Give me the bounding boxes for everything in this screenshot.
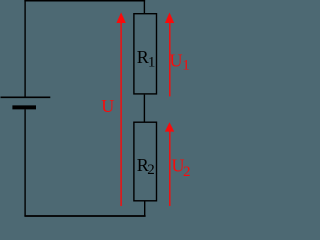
svg-text:2: 2 bbox=[183, 164, 191, 180]
voltage arrow U1 bbox=[165, 13, 174, 97]
wire mid stub R1 to R2 bbox=[143, 95, 145, 123]
svg-text:1: 1 bbox=[148, 54, 156, 70]
svg-text:1: 1 bbox=[182, 58, 190, 74]
wire top stub to R1 bbox=[143, 0, 145, 14]
voltage arrow U bbox=[116, 12, 125, 206]
wire top bbox=[24, 0, 145, 2]
wire bottom bbox=[24, 215, 145, 217]
svg-text:2: 2 bbox=[147, 162, 155, 178]
battery B1 negative plate bbox=[12, 105, 36, 109]
svg-text:U: U bbox=[101, 96, 114, 116]
wire left upper bbox=[24, 0, 26, 97]
wire bottom stub from R2 bbox=[144, 202, 146, 217]
wire left lower bbox=[24, 109, 26, 216]
resistor R2 bbox=[134, 122, 157, 201]
resistor R1 bbox=[134, 14, 157, 94]
voltage arrow U2 bbox=[165, 122, 174, 206]
battery B1 positive plate bbox=[1, 96, 51, 98]
svg-text:U: U bbox=[170, 50, 183, 70]
